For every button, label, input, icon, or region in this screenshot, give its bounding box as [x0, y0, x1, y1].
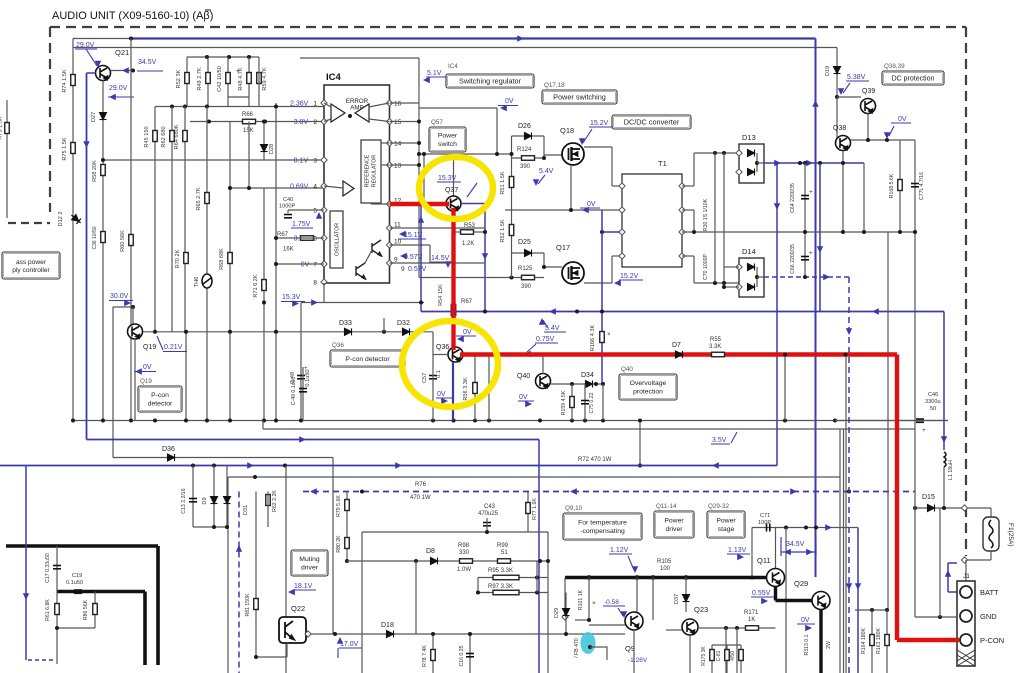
svg-text:Overvoltage: Overvoltage — [630, 380, 667, 387]
arrow blue y465 b — [395, 462, 402, 468]
junction 255,477 — [253, 475, 257, 479]
svg-text:18.1V: 18.1V — [294, 583, 313, 590]
svg-text:2.36V: 2.36V — [290, 101, 309, 108]
junction 485,232 — [483, 230, 487, 234]
svg-text:R171: R171 — [744, 610, 759, 616]
svg-text:Q11-14: Q11-14 — [656, 503, 677, 510]
wire x544 d25 — [543, 253, 545, 267]
junction 843,232 — [841, 230, 845, 234]
box DC/DC converter — [612, 115, 691, 129]
pin 5 IC4 — [321, 207, 327, 213]
diode D37 — [683, 595, 690, 602]
wire x264 vertical — [263, 188, 265, 421]
svg-text:DC protection: DC protection — [892, 76, 935, 83]
svg-text:Q11: Q11 — [757, 556, 771, 565]
svg-text:R52 1.5K: R52 1.5K — [500, 219, 506, 243]
wire x489 col — [488, 355, 490, 421]
junction bus421 x489 — [487, 419, 491, 423]
svg-text:4: 4 — [313, 184, 317, 191]
wire Q37 emitter blue — [461, 203, 485, 205]
wire C40 stub — [287, 210, 289, 213]
svg-text:470u25: 470u25 — [478, 511, 499, 517]
pin 1 IC4 — [321, 100, 327, 106]
wire y97 q39 — [837, 96, 861, 98]
svg-text:R62 2.2K: R62 2.2K — [272, 490, 278, 512]
wire blue dashed x239 — [238, 492, 240, 673]
T1 right pin y232 — [679, 229, 685, 235]
wire x872 col — [871, 610, 873, 673]
wire bank vertical x187 — [186, 57, 188, 107]
wire blue x602 — [601, 210, 603, 384]
underline 5.1V — [426, 76, 446, 78]
svg-text:×: × — [607, 332, 611, 338]
wire q36 base — [433, 354, 448, 356]
junction 805,163 — [803, 161, 807, 165]
resistor R70 2K body — [184, 253, 189, 264]
arrow 0V q36 em — [441, 398, 448, 404]
svg-text:F1(25A): F1(25A) — [1007, 523, 1014, 546]
wire y527 row right — [752, 527, 858, 529]
svg-text:50: 50 — [930, 406, 936, 412]
junction 577,311 — [575, 310, 579, 314]
svg-text:Q38: Q38 — [833, 125, 846, 132]
wire x497 drop — [496, 108, 498, 154]
box Overvoltage protection — [619, 374, 677, 400]
junction 571,210 — [569, 208, 573, 212]
svg-text:1.2K: 1.2K — [462, 241, 474, 247]
junction D13 out — [755, 161, 759, 165]
underline 0V q36 em — [436, 397, 452, 399]
junction 511,154 b — [510, 152, 514, 156]
resistor R97 body — [493, 590, 519, 595]
resistor R52 3K body — [185, 73, 190, 84]
junction 820,163 — [818, 161, 822, 165]
wire q22 bottom drop — [286, 643, 288, 657]
pin 11 IC4 — [386, 225, 392, 231]
svg-text:×: × — [592, 600, 596, 607]
junction 230,188 — [228, 186, 232, 190]
transistor Q37 — [446, 196, 461, 211]
arrow 17.0V — [337, 637, 343, 644]
junction 806,527 — [804, 526, 808, 530]
wire thick V2 — [143, 592, 147, 666]
box Power stage — [707, 511, 745, 538]
wire x775 col — [775, 528, 777, 569]
pin fuse top — [961, 505, 967, 511]
junction 724,283 — [722, 281, 726, 285]
svg-text:Q36: Q36 — [332, 342, 344, 349]
wire blue dashed bus y491 — [303, 491, 915, 493]
pin 10 IC4 — [386, 242, 392, 248]
underline 14.5V — [430, 261, 454, 263]
arrow -0.58 — [621, 611, 627, 618]
wire x537 col — [536, 561, 538, 593]
wire blue batt corner — [948, 562, 957, 564]
junction bus421 x207 — [205, 419, 209, 423]
pin x565 — [562, 614, 568, 620]
junction bus421 x785 — [783, 419, 787, 423]
svg-text:100: 100 — [660, 566, 671, 572]
arrow blue y311 b — [872, 308, 879, 314]
wire ref pin12 h — [371, 203, 389, 205]
junction bus421 x433 — [431, 419, 435, 423]
svg-text:Q9,10: Q9,10 — [565, 505, 583, 512]
transistor Q11 — [767, 569, 785, 587]
arrow 0V x497 — [500, 105, 507, 111]
junction 276,106 — [274, 105, 278, 109]
T1 right pin y210 — [679, 207, 685, 213]
junction 915,232 — [913, 230, 917, 234]
junction 419,165 — [417, 163, 421, 167]
junction 640,421 — [638, 419, 642, 423]
wire y577 r95 — [478, 577, 548, 579]
wire y628 link — [57, 627, 95, 629]
wire D13 out — [757, 162, 764, 164]
svg-text:Q38,39: Q38,39 — [884, 63, 905, 70]
wire gate Q18 — [544, 154, 562, 156]
junction 752,577 — [750, 576, 754, 580]
wire R59 vertical — [258, 57, 260, 107]
box For temperature compensating — [563, 513, 642, 540]
arrow 29.0V mid — [109, 94, 116, 100]
wire bus y421 — [73, 420, 948, 422]
resistor R65 2.7K body — [205, 193, 210, 204]
wire q23 out row — [698, 627, 776, 629]
svg-text:34.5V: 34.5V — [138, 59, 157, 66]
wire x478 col — [477, 578, 479, 593]
wire Q18 source — [570, 165, 572, 210]
underline 5.4V q17 — [544, 331, 566, 333]
wire ferrite bead link — [590, 647, 607, 660]
junction 887,140 — [885, 138, 889, 142]
diode D25 — [525, 250, 532, 257]
wire blue bus y465 — [0, 465, 777, 467]
REFERENCE REGULATOR box — [361, 140, 381, 203]
wire pin10 net — [390, 244, 431, 246]
arrow blue y439 — [299, 436, 306, 442]
resistor R51 body — [509, 177, 514, 188]
junction 335,634 — [333, 632, 337, 636]
box Power switch — [429, 127, 466, 152]
underline 15.2V Q18 — [589, 126, 613, 128]
wire x193 col — [192, 466, 194, 528]
transistor Q22 digital — [279, 617, 306, 643]
wire pin2 to amp — [324, 119, 331, 122]
wire C57 col — [432, 355, 434, 421]
svg-text:R75 1.5K: R75 1.5K — [62, 137, 68, 161]
svg-text:R62 680: R62 680 — [161, 126, 167, 147]
resistor R166 body — [600, 332, 605, 343]
svg-text:390: 390 — [520, 164, 531, 170]
junction y122 265 — [263, 120, 267, 124]
svg-text:P-con: P-con — [151, 392, 169, 399]
svg-text:R77 1.6K: R77 1.6K — [532, 498, 538, 520]
wire box edge y58 — [300, 57, 419, 59]
junction 424,204 — [422, 202, 426, 206]
arrow blue x26 — [23, 593, 29, 600]
capacitor C16 — [466, 654, 474, 657]
svg-text:0V: 0V — [301, 262, 310, 269]
IC4 box — [324, 85, 390, 283]
underline 15.3V Q37 — [437, 181, 461, 183]
thermistor TH6 — [202, 274, 212, 288]
svg-text:0V: 0V — [519, 394, 528, 401]
svg-text:15.3V: 15.3V — [438, 175, 457, 182]
diode D28 — [261, 145, 268, 152]
junction bus421 x103 — [101, 419, 105, 423]
junction 786,527 — [784, 526, 788, 530]
pointer -0.58 — [618, 608, 623, 616]
wire pin16 to amp — [369, 103, 389, 107]
junction 843,163 — [841, 161, 845, 165]
wire T1 pin4 stub — [612, 255, 620, 257]
T1 right pin y186 — [679, 183, 685, 189]
junction 589,620 — [587, 618, 591, 622]
pin 12 IC4 — [386, 201, 392, 207]
junction 470,634 — [468, 632, 472, 636]
T1 left pin y256 — [619, 253, 625, 259]
resistor R77 body — [526, 503, 531, 514]
transistor Q9 — [625, 612, 643, 630]
resistor R80 body — [345, 538, 350, 549]
arrow 15.2V q18 — [579, 138, 585, 145]
junction bus421 x186 — [184, 419, 188, 423]
svg-text:C70 1000P: C70 1000P — [703, 253, 709, 279]
wire y188 link — [230, 187, 324, 189]
resistor C-81 body — [725, 650, 730, 661]
capacitor C46 — [916, 419, 924, 422]
wire bank vertical x208 — [207, 57, 209, 107]
svg-text:Q18: Q18 — [560, 126, 574, 135]
svg-text:R72 470 1W: R72 470 1W — [578, 457, 612, 463]
svg-text:29.0V: 29.0V — [109, 85, 128, 92]
op-amp triangle left — [331, 104, 345, 122]
junction 227,527 — [225, 525, 229, 529]
svg-text:8: 8 — [313, 280, 317, 287]
junction 264,302 — [262, 301, 266, 305]
wire blue bus y439 — [87, 439, 540, 441]
wire gate Q17 — [544, 266, 562, 268]
wire pin3 net y160 — [103, 159, 324, 161]
wire x843 frame — [843, 429, 845, 673]
resistor R49 2.7K body — [206, 73, 211, 84]
wire x544 d26 — [543, 136, 545, 158]
junction error amp — [348, 114, 352, 118]
svg-text:R60 56K: R60 56K — [120, 230, 126, 252]
diode D13 a — [748, 150, 755, 157]
connector pin GND — [960, 610, 972, 622]
svg-text:T1: T1 — [658, 159, 667, 168]
pointer 29.0V to Q21 — [86, 49, 97, 66]
svg-text:C46: C46 — [928, 392, 938, 398]
diode D15 — [928, 505, 935, 512]
wire blue x820 — [819, 163, 821, 312]
wire pin4 to buffer — [324, 186, 343, 188]
wire y332 D33 D32 line — [143, 331, 433, 333]
wire x739 link1 — [724, 266, 739, 268]
svg-text:driver: driver — [301, 565, 319, 572]
junction bus421 x540 — [538, 419, 542, 423]
wire R125 row — [419, 277, 544, 279]
svg-text:REFERENCE: REFERENCE — [365, 154, 371, 187]
svg-text:R164 180K: R164 180K — [861, 627, 867, 653]
svg-text:14.5V: 14.5V — [431, 255, 450, 262]
svg-text:IC4: IC4 — [326, 72, 342, 83]
diode D7 — [676, 351, 683, 358]
arrow 5.1V — [423, 77, 430, 83]
svg-text:C42 10/50: C42 10/50 — [217, 66, 223, 92]
wire x915 col — [914, 140, 916, 421]
junction y332 230 — [228, 330, 232, 334]
svg-text:2: 2 — [313, 119, 317, 126]
arrow meas left — [784, 549, 791, 555]
transistor Q23 — [682, 619, 698, 635]
junction 419,121 — [417, 120, 421, 124]
wire vertical x185 — [184, 107, 186, 333]
wire ref to pin12 — [370, 203, 372, 204]
arrow blue y311 — [549, 308, 556, 314]
svg-text:R76: R76 — [415, 482, 427, 488]
red trace pin12 to Q37 — [390, 202, 450, 206]
resistor R85 body — [254, 599, 259, 610]
svg-text:C75 0.22: C75 0.22 — [589, 392, 595, 413]
wire pin15 to amp — [369, 119, 389, 122]
pin 16 IC4 — [386, 100, 392, 106]
svg-text:5.38V: 5.38V — [847, 74, 866, 81]
junction 285,465 — [283, 464, 287, 468]
wire x805 — [804, 163, 806, 277]
wire T1 pin1 stub — [612, 185, 620, 187]
junction 900,232 — [898, 230, 902, 234]
svg-text:C40: C40 — [283, 197, 293, 203]
cyan highlight — [581, 632, 596, 654]
pointer 5.4V q17 — [543, 320, 548, 328]
diode D29 — [563, 609, 570, 616]
junction 544,155 — [542, 156, 546, 160]
wire fuse drop a — [990, 508, 992, 517]
arrow blue x858 — [855, 583, 861, 590]
wire x207 long vertical — [206, 107, 208, 421]
wire 0V rail y210 — [505, 209, 620, 211]
transistor Q36 — [448, 347, 463, 362]
red trace down x897 — [895, 355, 899, 641]
wire x846 upper — [845, 355, 847, 430]
svg-text:0.69V: 0.69V — [290, 184, 309, 191]
arrow blue q36 emitter — [450, 405, 456, 412]
wire x301 vertical — [300, 303, 302, 421]
svg-text:D32: D32 — [397, 320, 410, 327]
transistor Q18 — [562, 143, 584, 165]
pin 9 IC4 — [386, 260, 392, 266]
wire frame y477 — [228, 476, 840, 478]
arrow 15.2V T1 — [614, 280, 621, 286]
wire x612 to T1 pin4 — [611, 256, 613, 283]
wire thick q29 drop — [819, 610, 822, 673]
dashed border left — [49, 27, 51, 212]
junction 944,508 — [942, 506, 946, 510]
wire top frame black — [73, 38, 131, 40]
svg-text:P-CON: P-CON — [980, 636, 1004, 645]
wire blue dashed x849 — [848, 277, 850, 673]
svg-text:Q40: Q40 — [517, 373, 530, 380]
capacitor C19 — [74, 590, 82, 593]
wire thick L1 — [6, 544, 158, 548]
arrow 0.57V — [400, 253, 407, 259]
svg-text:P-con detector: P-con detector — [345, 356, 390, 363]
wire frame y47 — [73, 47, 837, 49]
wire x362 col — [361, 532, 363, 673]
fuse F1 — [983, 517, 999, 551]
svg-text:5: 5 — [313, 208, 317, 215]
diode D10 — [224, 497, 231, 504]
wire fuse top link — [967, 507, 991, 509]
resistor R75 body — [71, 143, 76, 154]
svg-text:Power: Power — [664, 518, 684, 525]
junction bus421 x585 — [583, 419, 587, 423]
svg-text:R124: R124 — [517, 147, 532, 153]
pin 8 IC4 — [321, 279, 327, 285]
box Switching regulator — [446, 74, 534, 88]
wire Q18 drain — [584, 146, 612, 148]
svg-text:R64 680K: R64 680K — [174, 124, 180, 149]
capacitor C71 — [767, 524, 770, 532]
svg-text:REGULATOR: REGULATOR — [372, 155, 378, 188]
arrow dash x849 a — [846, 328, 852, 335]
connector J1 body — [957, 581, 975, 666]
junction 715,283 — [713, 281, 717, 285]
svg-text:Q37: Q37 — [445, 187, 458, 194]
underline 0V q39 — [891, 122, 911, 124]
junction y106 172 — [170, 105, 174, 109]
junction 602,311 — [600, 310, 604, 314]
wire x837 from frame — [836, 48, 838, 98]
arrow blue x777 — [774, 203, 780, 210]
junction 548,561b — [546, 559, 550, 563]
svg-text:Q19: Q19 — [143, 344, 156, 351]
wire x640 stub — [639, 421, 641, 466]
wire blue x485 — [484, 204, 486, 312]
svg-text:R99: R99 — [497, 543, 509, 549]
resistor R60 body — [129, 235, 134, 246]
svg-text:R168 5.6K: R168 5.6K — [889, 173, 895, 198]
svg-text:R98: R98 — [458, 543, 470, 549]
wire frame y429 — [263, 428, 915, 430]
junction 133,307 — [131, 305, 135, 309]
wire x915 lower — [914, 421, 916, 618]
wire blue x944 drop — [943, 312, 945, 451]
wire blue x86 vertical — [86, 73, 88, 440]
junction 276,238 — [274, 236, 278, 240]
wire x612 to T1 pin1 — [611, 147, 613, 186]
junction 347,561 — [345, 559, 349, 563]
svg-text:34.5V: 34.5V — [786, 541, 805, 548]
wire x73 vertical — [72, 39, 74, 421]
junction 887,610 — [885, 608, 889, 612]
svg-text:R56 3.3K: R56 3.3K — [463, 377, 469, 401]
junction y122 209 — [207, 120, 211, 124]
wire Q21 collector right y70 — [110, 70, 133, 72]
red trace Q36 to right — [460, 352, 897, 356]
arrow on blue top bus — [517, 35, 524, 41]
wire y592 r97 — [478, 592, 548, 594]
resistor R55 body — [712, 352, 725, 357]
junction 915,508 — [913, 506, 917, 510]
svg-text:51: 51 — [501, 550, 508, 556]
wire top blue bus y39 — [131, 37, 816, 39]
wire x286 col — [285, 466, 287, 673]
svg-text:0V: 0V — [505, 98, 514, 105]
OSCILLATOR box — [330, 211, 343, 268]
